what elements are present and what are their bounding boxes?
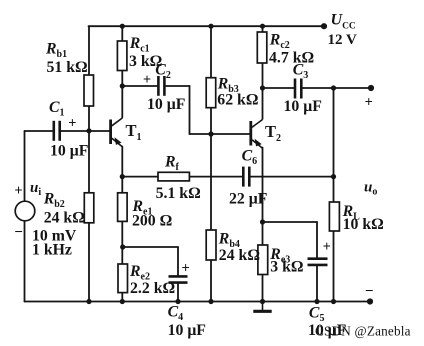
resistor Rb3 — [206, 78, 216, 108]
wire C2 corner down to T2 base line — [189, 86, 191, 134]
node output terminal plus — [368, 85, 374, 91]
wire T1 base — [89, 130, 110, 132]
node top rail at Rc1 — [120, 24, 125, 29]
wire bottom ground rail — [25, 301, 371, 303]
svg-text:10 μF: 10 μF — [50, 142, 88, 159]
svg-text:10 μF: 10 μF — [168, 322, 206, 339]
wire C2 right to corner — [166, 85, 190, 87]
svg-text:C2: C2 — [155, 61, 171, 81]
resistor Re2 — [118, 264, 128, 293]
svg-text:Rf: Rf — [164, 153, 180, 173]
node output terminal minus — [367, 298, 373, 304]
svg-text:+: + — [182, 261, 190, 277]
node ground rail at C4 — [175, 299, 180, 304]
svg-text:3 kΩ: 3 kΩ — [270, 259, 303, 276]
capacitor C3 — [294, 79, 297, 99]
wire input source vertical — [24, 131, 26, 302]
resistor RL — [329, 202, 339, 231]
wire C1 to base node — [61, 130, 89, 132]
resistor Rc2 — [257, 32, 267, 63]
node top rail at Rb3 — [208, 24, 213, 29]
svg-text:−: − — [365, 284, 374, 300]
node T1 collector / C2 — [120, 83, 125, 88]
svg-text:200 Ω: 200 Ω — [132, 212, 172, 229]
svg-text:T1: T1 — [126, 121, 142, 143]
svg-text:C1: C1 — [49, 99, 65, 119]
node top rail at Rc2 — [260, 24, 265, 29]
node ground rail at Re2 — [120, 299, 125, 304]
node output / C3 right — [331, 85, 336, 90]
node ground rail at C5 — [314, 299, 319, 304]
svg-text:4.7 kΩ: 4.7 kΩ — [269, 50, 314, 67]
node T1 base — [86, 128, 91, 133]
svg-text:+: + — [143, 72, 151, 88]
wire top supply rail — [89, 25, 325, 27]
wire C3 to output terminal — [303, 87, 371, 89]
node Re1/Re2 junction to C4 — [120, 244, 125, 249]
wire T2 collector vertical (rail through Rc2 to transistor) — [262, 26, 264, 119]
svg-text:12 V: 12 V — [328, 32, 357, 48]
svg-text:C5: C5 — [309, 304, 325, 324]
svg-text:2.2 kΩ: 2.2 kΩ — [130, 280, 175, 297]
svg-text:24 kΩ: 24 kΩ — [44, 210, 85, 227]
svg-text:+: + — [68, 116, 76, 132]
svg-text:10 μF: 10 μF — [284, 98, 322, 115]
resistor Re3 — [258, 245, 268, 275]
resistor Re1 — [118, 193, 128, 222]
capacitor C4 — [169, 275, 188, 278]
svg-text:UCC: UCC — [331, 12, 356, 32]
capacitor C1 — [52, 121, 55, 141]
node ground rail at Rb4 — [208, 299, 213, 304]
node T1 emitter / feedback — [120, 174, 125, 179]
svg-text:−: − — [14, 225, 23, 241]
svg-text:51 kΩ: 51 kΩ — [47, 59, 88, 76]
wire C3 horizontal from T2 collector node — [263, 87, 294, 89]
wire C4 vertical bottom — [177, 284, 179, 302]
svg-text:62 kΩ: 62 kΩ — [217, 92, 258, 109]
node T2 collector / C3 — [260, 85, 265, 90]
svg-text:Rc2: Rc2 — [269, 31, 290, 51]
svg-text:Rb1: Rb1 — [45, 41, 67, 61]
wire T2 emitter node to C5 — [263, 221, 318, 223]
wire left bias divider vertical (Rb1/Rb2 line) — [88, 26, 90, 301]
svg-text:5.1 kΩ: 5.1 kΩ — [156, 185, 201, 202]
node feedback at output line — [331, 174, 336, 179]
node ground rail at Re3 — [260, 299, 265, 304]
transistor T1 — [111, 118, 123, 147]
capacitor C6 — [242, 167, 245, 187]
wire feedback line (T1 emitter - Rf - C6 - output node) — [122, 176, 242, 178]
svg-text:ui: ui — [30, 180, 41, 198]
svg-text:uo: uo — [364, 180, 377, 198]
wire C1 input horizontal left — [25, 130, 53, 132]
resistor Rf — [158, 172, 189, 181]
svg-text:T2: T2 — [265, 122, 281, 144]
node T2 emitter / Re3 / C5 — [260, 219, 265, 224]
svg-text:CSDN @Zanebla: CSDN @Zanebla — [315, 324, 411, 339]
ground — [253, 302, 271, 312]
svg-text:+: + — [323, 239, 331, 255]
resistor Rc1 — [117, 41, 127, 71]
wire C2 horizontal from T1 collector node — [122, 85, 157, 87]
wire Re1/Re2 node to C4 — [122, 246, 178, 248]
svg-text:C4: C4 — [168, 304, 184, 324]
signal source circle ui — [15, 201, 35, 221]
capacitor C2 — [157, 76, 160, 96]
wire C4 vertical top — [177, 247, 179, 275]
node ground rail at RL — [331, 299, 336, 304]
svg-text:C6: C6 — [242, 148, 258, 168]
wire T1 collector vertical (rail through Rc1 to transistor) — [121, 26, 123, 117]
svg-text:22 μF: 22 μF — [229, 191, 267, 208]
wire output vertical through RL — [333, 88, 335, 302]
node T2 base / Rb3-Rb4 — [208, 131, 213, 136]
svg-text:24 kΩ: 24 kΩ — [219, 247, 260, 264]
transistor T2 — [251, 120, 263, 149]
wire feedback C6 right segment — [251, 176, 334, 178]
wire T1 emitter vertical down through Re1/Re2 to ground rail — [121, 147, 123, 302]
svg-text:Rc1: Rc1 — [129, 35, 150, 55]
svg-text:10 kΩ: 10 kΩ — [343, 216, 384, 233]
svg-text:+: + — [14, 183, 22, 199]
wire Rb3/Rb4 vertical — [210, 26, 212, 301]
wire C5 vertical top — [316, 222, 318, 258]
svg-text:10 μF: 10 μF — [147, 96, 185, 113]
svg-text:Rb2: Rb2 — [43, 191, 65, 211]
wire T2 base horizontal — [190, 133, 251, 135]
node Ucc supply terminal — [321, 23, 327, 29]
resistor Rb2 — [84, 193, 94, 223]
resistor Rb4 — [206, 230, 216, 260]
svg-text:1 kHz: 1 kHz — [32, 242, 72, 259]
wire T2 emitter vertical down through Re3 to ground rail — [262, 148, 264, 302]
svg-text:+: + — [365, 94, 373, 110]
node ground rail at Rb2 — [86, 299, 91, 304]
resistor Rb1 — [84, 75, 94, 106]
wire C5 vertical bottom — [316, 266, 318, 301]
capacitor C5 — [308, 257, 328, 260]
